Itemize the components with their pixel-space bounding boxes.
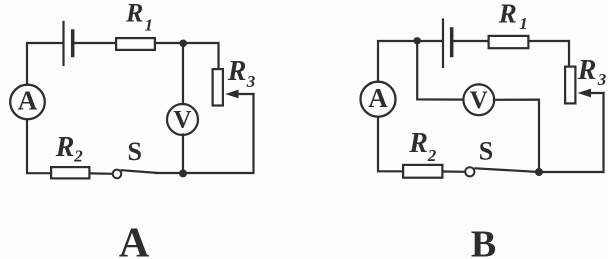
battery G2 long plate bbox=[442, 20, 444, 68]
svg-text:2: 2 bbox=[73, 147, 83, 166]
node: junction dot top (circuit A) bbox=[179, 40, 187, 48]
label R2 (circuit A) bbox=[55, 132, 84, 165]
svg-text:S: S bbox=[479, 137, 493, 166]
resistor R1 (circuit A) bbox=[116, 38, 155, 50]
wire: circuit B right side (arrow down to bottom junction) bbox=[539, 93, 604, 172]
svg-text:R: R bbox=[227, 56, 247, 87]
voltmeter V (circuit B) bbox=[463, 84, 494, 115]
wire: R1 to top-right corner, down to R3 (circuit B) bbox=[529, 41, 570, 67]
caption A bbox=[119, 221, 150, 259]
svg-text:3: 3 bbox=[246, 72, 256, 91]
wire: circuit A right side (arrow down to bottom wire) bbox=[183, 94, 254, 173]
label R1 (circuit B) bbox=[498, 0, 528, 33]
wire: battery to R1 bbox=[73, 42, 116, 44]
battery G1 long plate bbox=[62, 22, 64, 65]
switch S pivot circle (circuit A) bbox=[113, 170, 122, 179]
rheostat R3 body (circuit B) bbox=[565, 67, 575, 104]
rheostat R3 body (circuit A) bbox=[213, 69, 223, 105]
wire: circuit B top-left (corner down to ammeter) bbox=[378, 41, 442, 82]
ammeter A (circuit B) bbox=[361, 82, 396, 117]
svg-text:V: V bbox=[470, 87, 488, 114]
svg-text:A: A bbox=[368, 83, 388, 113]
wire: voltmeter branch left (circuit B) bbox=[417, 44, 464, 100]
switch S blade (circuit B) bbox=[475, 168, 536, 172]
svg-text:3: 3 bbox=[597, 70, 607, 89]
wire: battery to R1 (circuit B) bbox=[452, 40, 489, 42]
wire: circuit A bottom-left corner bbox=[27, 120, 51, 174]
svg-text:1: 1 bbox=[145, 16, 154, 35]
battery G2 short plate bbox=[450, 29, 454, 56]
label S (circuit B) bbox=[479, 137, 493, 166]
svg-text:R: R bbox=[577, 55, 597, 86]
rheostat R3 wiper arrow (circuit B) bbox=[578, 89, 604, 98]
label R1 (circuit A) bbox=[125, 0, 153, 35]
caption B bbox=[471, 224, 496, 259]
rheostat R3 wiper arrow (circuit A) bbox=[225, 90, 253, 99]
resistor R2 (circuit B) bbox=[403, 165, 442, 178]
svg-text:R: R bbox=[498, 0, 517, 28]
wire: R2 to switch (circuit B) bbox=[444, 170, 465, 173]
battery G1 short plate bbox=[71, 31, 75, 56]
wire: R1 to top-right corner, down to R3 bbox=[155, 43, 219, 69]
node: junction dot bottom (circuit A) bbox=[179, 169, 187, 177]
svg-text:R: R bbox=[408, 128, 428, 159]
wire: circuit A top-left (battery to left corner, down to ammeter) bbox=[27, 43, 63, 85]
resistor R2 (circuit A) bbox=[51, 167, 89, 178]
svg-text:1: 1 bbox=[519, 14, 528, 33]
svg-text:A: A bbox=[18, 85, 38, 115]
svg-text:V: V bbox=[173, 107, 191, 134]
node: junction dot bottom (circuit B) bbox=[535, 168, 543, 176]
svg-text:A: A bbox=[119, 221, 150, 259]
svg-text:S: S bbox=[128, 137, 142, 166]
svg-text:R: R bbox=[55, 132, 75, 163]
wire: R2 to switch (circuit A) bbox=[91, 172, 113, 175]
label R2 (circuit B) bbox=[408, 128, 437, 165]
node: junction dot top (circuit B) bbox=[414, 37, 421, 44]
ammeter A (circuit A) bbox=[10, 85, 45, 120]
wire: voltmeter branch upper (circuit A) bbox=[182, 47, 184, 105]
svg-text:2: 2 bbox=[427, 146, 437, 165]
wire: voltmeter branch right, down to bottom junction (circuit B) bbox=[494, 100, 539, 168]
switch S pivot circle (circuit B) bbox=[465, 167, 474, 176]
svg-text:B: B bbox=[471, 224, 496, 259]
label S (circuit A) bbox=[128, 137, 142, 166]
label R3 (circuit B) bbox=[577, 55, 607, 89]
label R3 (circuit A) bbox=[227, 56, 256, 91]
voltmeter V (circuit A) bbox=[167, 104, 198, 135]
wire: switch blade to bottom junction (circuit A) bbox=[156, 172, 183, 174]
svg-text:R: R bbox=[125, 0, 143, 28]
wire: voltmeter branch lower (circuit A) bbox=[182, 135, 184, 173]
wire: circuit B bottom-left corner up to ammeter bbox=[378, 117, 403, 171]
resistor R1 (circuit B) bbox=[489, 36, 529, 48]
switch S blade (circuit A) bbox=[122, 170, 157, 173]
